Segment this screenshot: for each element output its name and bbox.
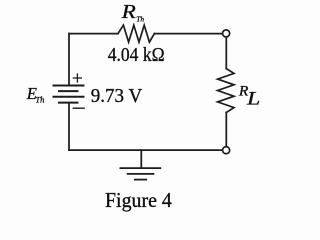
wire: right vertical upper (terminal to R_L) <box>225 37 227 69</box>
battery E_Th plates <box>54 86 84 103</box>
battery long plate 1 <box>54 85 84 87</box>
svg-text:4.04 kΩ: 4.04 kΩ <box>108 44 165 66</box>
svg-text:R: R <box>120 1 135 23</box>
svg-text:9.73 V: 9.73 V <box>91 85 143 107</box>
ground bar 2 <box>128 173 154 175</box>
ground bar 1 <box>120 167 160 169</box>
battery long plate 2 <box>54 96 84 98</box>
resistor R_Th zigzag <box>118 25 154 42</box>
ground stem <box>140 150 142 168</box>
svg-text:Th: Th <box>136 15 144 24</box>
wire: right vertical lower (R_L to bottom terminal) <box>225 113 227 147</box>
battery minus sign <box>73 107 84 109</box>
wire: top horizontal resistor to top terminal <box>154 33 222 35</box>
battery short plate 2 <box>59 102 78 104</box>
node: top terminal circle <box>223 30 230 37</box>
battery plus sign <box>73 74 81 82</box>
ground bar 3 <box>135 179 146 181</box>
wire: top horizontal to resistor R_Th <box>69 33 118 35</box>
battery short plate 1 <box>59 90 78 92</box>
svg-text:Figure 4: Figure 4 <box>105 188 172 212</box>
wire: left vertical upper segment (battery top to top-left corner) <box>68 34 70 86</box>
svg-text:L: L <box>246 89 260 109</box>
wire: bottom horizontal <box>69 149 222 151</box>
wire: left vertical lower segment (battery bottom to bottom-left corner) <box>68 103 70 150</box>
node: bottom terminal circle <box>223 147 230 154</box>
svg-text:Th: Th <box>35 95 44 105</box>
resistor R_L zigzag <box>218 69 234 113</box>
